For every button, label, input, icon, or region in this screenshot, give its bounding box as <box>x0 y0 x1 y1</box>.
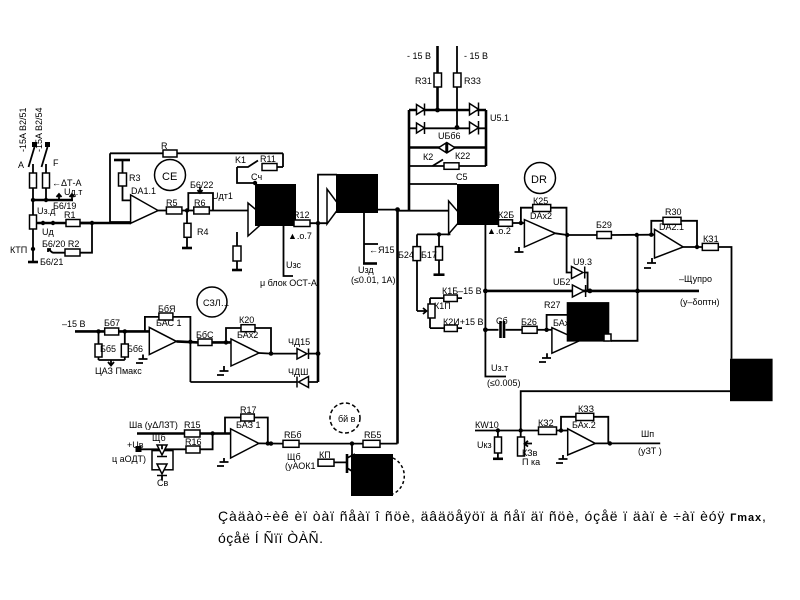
svg-text:DA2.1: DA2.1 <box>659 222 684 232</box>
terminal input2 <box>136 446 142 452</box>
svg-text:R11: R11 <box>260 154 276 164</box>
svg-text:DA1.1: DA1.1 <box>131 186 156 196</box>
op-amp DA4.1 <box>231 429 259 458</box>
svg-text:Бб6: Бб6 <box>127 344 143 354</box>
junction <box>635 233 639 237</box>
svg-text:К25: К25 <box>533 196 548 206</box>
capacitor C6 <box>501 321 505 338</box>
svg-text:μ блок ОСТ-А: μ блок ОСТ-А <box>260 278 317 288</box>
wire <box>122 160 124 173</box>
meter circle U1 <box>197 287 227 317</box>
meter DR circle <box>525 163 556 194</box>
wire output block A <box>294 222 296 224</box>
svg-text:(≤0.005): (≤0.005) <box>487 378 520 388</box>
wire <box>37 222 93 225</box>
wire feedback E <box>547 315 567 330</box>
diode U5.1b <box>470 103 479 117</box>
junction <box>185 208 189 212</box>
diode VD5a <box>157 445 167 457</box>
svg-text:R30: R30 <box>665 207 682 217</box>
svg-text:Çàäàò÷èê èï òàï ñåàï î ñöè, äâ: Çàäàò÷èê èï òàï ñåàï î ñöè, äâäöåÿöï ä ñ… <box>218 508 767 524</box>
wire input2 <box>139 434 213 450</box>
wire feedback B <box>318 175 337 224</box>
wire R18 <box>430 297 462 299</box>
functional block C <box>457 184 499 225</box>
svg-text:БАС 1: БАС 1 <box>156 318 182 328</box>
svg-text:КW10: КW10 <box>475 420 499 430</box>
wire supply right <box>456 46 458 73</box>
svg-text:БАх.2: БАх.2 <box>572 420 596 430</box>
svg-text:К2Б: К2Б <box>498 210 514 220</box>
junction <box>51 221 55 225</box>
op-amp DA5.2 <box>568 429 596 455</box>
resistor RS2 <box>43 173 50 188</box>
terminal A2 <box>45 142 50 147</box>
resistor R12 <box>294 220 310 227</box>
wire to block F <box>718 247 731 359</box>
wire bottom left of bridge <box>408 210 410 212</box>
svg-text:БАЗ 1: БАЗ 1 <box>236 420 261 430</box>
junction <box>44 198 48 202</box>
svg-text:Бб5: Бб5 <box>100 344 116 354</box>
wire block F to bottom section <box>521 391 730 430</box>
svg-text:К2: К2 <box>423 152 433 162</box>
meter circle SP (dashed) <box>330 403 360 433</box>
svg-text:КТП: КТП <box>10 245 27 255</box>
diode VD16 <box>297 377 309 388</box>
row C5 wire <box>408 183 457 185</box>
resistor R29 <box>597 232 612 239</box>
wire output <box>555 233 597 235</box>
tap arrow <box>198 187 203 193</box>
svg-text:(у–δоптн): (у–δоптн) <box>680 297 719 307</box>
node tap arrow <box>70 194 75 200</box>
wire row E <box>485 329 522 331</box>
wire <box>45 188 47 200</box>
resistor RS3 <box>30 215 37 229</box>
svg-text:–15 В: –15 В <box>62 319 86 329</box>
svg-text:RЗ3: RЗ3 <box>464 76 481 86</box>
resistor R18 <box>444 295 458 302</box>
svg-text:R16: R16 <box>185 437 202 447</box>
resistor R67 <box>105 328 119 335</box>
wire DA2.2 feedback <box>521 208 567 235</box>
resistor R24 vertical <box>413 247 421 261</box>
wire supply left <box>436 46 439 73</box>
functional block G <box>351 454 393 496</box>
junction <box>253 181 257 185</box>
svg-text:R1: R1 <box>64 210 76 220</box>
junction <box>455 125 460 130</box>
functional block B <box>336 174 378 213</box>
ground E <box>539 353 551 362</box>
junction <box>31 247 35 251</box>
ground DA2.1 <box>644 258 656 268</box>
wire output DA3.2 <box>259 352 297 355</box>
svg-text:Бб7: Бб7 <box>104 318 120 328</box>
bridge mid wire <box>408 127 486 129</box>
wire <box>109 153 111 222</box>
transistor leads <box>347 454 355 473</box>
op-amp DA1.1 <box>131 195 159 223</box>
svg-text:A: A <box>18 160 24 170</box>
node tap arrow <box>48 249 53 253</box>
junction <box>483 327 488 332</box>
wire feedback DA4.1 <box>225 418 268 444</box>
wire feedback DA3.2 <box>226 328 271 354</box>
junction <box>350 441 354 445</box>
svg-text:Cч: Cч <box>251 172 262 182</box>
wiper R34 <box>525 441 533 447</box>
resistor R25 <box>533 205 551 212</box>
svg-text:RБ5: RБ5 <box>364 430 381 440</box>
resistor R32 <box>539 427 557 435</box>
svg-text:БбЯ: БбЯ <box>158 304 176 314</box>
resistor R14 <box>283 440 299 447</box>
svg-text:ЧДШ: ЧДШ <box>288 367 308 377</box>
svg-text:бй в: бй в <box>338 414 356 424</box>
resistor R22 <box>444 163 459 170</box>
svg-text:R: R <box>161 141 168 151</box>
diode U9.3 <box>572 267 585 279</box>
resistor RS1 <box>30 173 37 188</box>
bridge bottom wire <box>408 146 486 149</box>
resistor R7 <box>163 150 177 157</box>
resistor R23s <box>454 73 462 87</box>
svg-text:Сб: Сб <box>496 316 508 326</box>
ground DA4.1 <box>217 458 229 466</box>
junction <box>544 328 548 332</box>
wire output <box>158 210 166 212</box>
resistor R23 output <box>499 220 513 227</box>
tap R6/22 jumper <box>188 193 213 211</box>
svg-text:ЦАЗ Пмакс: ЦАЗ Пмакс <box>95 366 142 376</box>
wiper arrow down <box>99 360 125 366</box>
resistor R3 <box>119 173 127 186</box>
resistor R5 <box>166 207 182 214</box>
svg-text:Uзс: Uзс <box>286 260 302 270</box>
terminal bar <box>363 262 377 265</box>
wire <box>277 166 283 168</box>
junction <box>316 351 321 356</box>
svg-text:C5: C5 <box>456 172 468 182</box>
wire <box>32 229 34 262</box>
svg-text:óçåë Í Ñïï ÒÀÑ.: óçåë Í Ñïï ÒÀÑ. <box>218 530 324 546</box>
svg-text:К20: К20 <box>239 315 254 325</box>
svg-text:R15: R15 <box>184 420 201 430</box>
junction <box>437 232 441 236</box>
junction <box>31 198 35 202</box>
junction <box>588 289 593 294</box>
wire <box>186 211 188 249</box>
wire U9.3 branch <box>567 235 588 291</box>
svg-text:СЗЛ…: СЗЛ… <box>203 298 230 308</box>
wire <box>310 222 327 224</box>
wire input DA3.1 <box>75 330 149 333</box>
resistor R16 <box>186 446 200 453</box>
resistor R33f <box>576 413 594 420</box>
wire output block B <box>378 209 398 211</box>
junction <box>123 329 127 333</box>
svg-text:КЗ1: КЗ1 <box>703 234 719 244</box>
wiper arrow R21 <box>417 308 427 314</box>
wire <box>513 222 525 224</box>
resistor R31 <box>702 243 718 250</box>
op-amp DA3.1 <box>149 327 176 354</box>
svg-text:DAх2: DAх2 <box>530 211 552 221</box>
diode U6.2 <box>572 285 585 297</box>
wire <box>611 234 654 236</box>
motor circle arc <box>393 458 404 494</box>
wire output DA3.1 <box>176 341 198 342</box>
svg-text:Uкз: Uкз <box>477 440 492 450</box>
bridge left edge <box>408 110 411 211</box>
svg-text:Б6/22: Б6/22 <box>190 180 213 190</box>
junction <box>649 233 653 237</box>
wire <box>45 164 47 173</box>
ground Ukz <box>493 457 503 460</box>
svg-text:Шп: Шп <box>641 429 654 439</box>
svg-text:F: F <box>53 158 59 168</box>
wire <box>497 431 499 459</box>
functional block E <box>567 302 610 342</box>
resistor R10 <box>318 459 334 466</box>
ground R4 <box>182 247 192 250</box>
wire <box>80 222 131 225</box>
resistor R20f <box>241 325 255 332</box>
svg-text:K1: K1 <box>235 155 246 165</box>
resistor Ukz vertical <box>495 437 502 453</box>
junction <box>695 245 699 249</box>
wire pot bottom <box>429 318 431 328</box>
wire op-amp C lower input <box>417 233 450 235</box>
svg-text:▲.о.2: ▲.о.2 <box>487 226 511 236</box>
svg-text:Ша (уΔЛЗТ): Ша (уΔЛЗТ) <box>129 420 178 430</box>
ground DA2.2 <box>515 247 524 252</box>
svg-text:БбС: БбС <box>196 330 214 340</box>
svg-text:–Щупро: –Щупро <box>679 274 712 284</box>
main horizontal wire <box>485 290 699 293</box>
wire clamp bottom <box>190 381 318 383</box>
bridge top wire <box>409 109 486 112</box>
svg-text:RЗ1: RЗ1 <box>415 76 432 86</box>
wire feedback top <box>110 152 283 154</box>
resistor R17 vertical <box>436 247 443 261</box>
svg-text:U5.1: U5.1 <box>490 113 509 123</box>
node tap arrow <box>57 194 62 200</box>
resistor R65 <box>95 344 102 357</box>
svg-text:Uз.т: Uз.т <box>491 363 508 373</box>
op-amp A1 (behind block) <box>248 203 267 236</box>
wire <box>380 443 398 445</box>
resistor R6 <box>194 207 210 214</box>
wire <box>209 210 248 212</box>
diode VD5b <box>157 464 167 476</box>
wire pot top <box>429 298 431 304</box>
capacitor C1 plate <box>114 159 130 162</box>
op-amp E1 (behind block) <box>552 328 580 354</box>
junction <box>269 441 273 445</box>
bridge right edge <box>485 110 488 166</box>
junction <box>496 428 500 432</box>
wire <box>110 221 131 223</box>
wire <box>123 186 131 200</box>
svg-text:К22: К22 <box>455 151 470 161</box>
resistor R13 <box>363 440 380 447</box>
wire <box>299 443 363 445</box>
wire block C down <box>485 225 506 377</box>
svg-text:R3: R3 <box>129 173 141 183</box>
ground R17 <box>434 273 445 276</box>
diode VD15 <box>297 349 309 360</box>
junction <box>269 351 273 355</box>
svg-text:КЗЗ: КЗЗ <box>578 404 594 414</box>
junction <box>635 289 640 294</box>
wire feedback right drop <box>282 153 284 167</box>
resistor R11 <box>262 164 277 171</box>
svg-text:Б24: Б24 <box>398 250 414 260</box>
junction <box>519 428 523 432</box>
svg-text:R17: R17 <box>240 405 257 415</box>
svg-text:К1П: К1П <box>434 301 451 311</box>
potentiometer R21 <box>428 304 435 318</box>
junction <box>90 221 94 225</box>
diode clamp box <box>152 451 173 470</box>
meter CE circle <box>155 160 186 191</box>
svg-text:R6: R6 <box>194 198 206 208</box>
svg-text:(уАОК1: (уАОК1 <box>285 461 316 471</box>
wire to block C <box>398 210 449 212</box>
wire block E output <box>611 235 638 341</box>
ground DA3.2 <box>217 366 229 375</box>
junction <box>559 428 563 432</box>
opto diode pair U6.6 <box>439 143 456 153</box>
svg-text:(≤0.01, 1А): (≤0.01, 1А) <box>351 275 395 285</box>
wire <box>436 87 439 110</box>
diode U5.1a <box>417 104 425 116</box>
svg-text:Б6/20 R2: Б6/20 R2 <box>42 239 79 249</box>
op-amp C1 (behind block) <box>449 201 463 234</box>
wire clamp vertical <box>317 223 320 382</box>
svg-text:Uдт1: Uдт1 <box>212 191 233 201</box>
wire <box>557 430 568 432</box>
row K2 wire <box>408 165 486 167</box>
junction <box>41 221 45 225</box>
svg-text:(уЗТ ): (уЗТ ) <box>638 446 662 456</box>
op-amp DA3.2 <box>231 339 259 366</box>
svg-text:R27: R27 <box>544 300 561 310</box>
ground DA3.1 <box>136 355 148 364</box>
junction <box>224 340 228 344</box>
svg-text:К2И+15 В: К2И+15 В <box>443 317 484 327</box>
wire feedback DA5.2 <box>561 417 608 444</box>
switch SA2 <box>42 147 48 167</box>
wire below block B <box>363 213 365 264</box>
svg-text:▲.о.7: ▲.о.7 <box>288 231 312 241</box>
wire <box>237 167 257 183</box>
op-amp DA2.2 <box>524 220 555 247</box>
svg-text:Б17: Б17 <box>421 250 437 260</box>
wire output <box>595 442 660 444</box>
svg-text:CE: CE <box>162 171 177 183</box>
resistor R1 <box>66 220 80 227</box>
svg-text:- 15 В: - 15 В <box>407 51 431 61</box>
svg-text:UБ2: UБ2 <box>553 277 570 287</box>
wire long vertical feedback <box>396 210 399 444</box>
functional block F <box>730 359 773 402</box>
junction <box>266 441 270 445</box>
wire <box>32 200 34 215</box>
svg-text:КЗ2: КЗ2 <box>538 418 554 428</box>
wire bus <box>33 199 73 202</box>
wire <box>53 223 92 253</box>
wire <box>309 353 319 355</box>
svg-text:RБб: RБб <box>284 430 302 440</box>
wire clamp stub <box>161 445 163 480</box>
switch K1 <box>237 161 258 168</box>
svg-text:Б6/21: Б6/21 <box>40 257 63 267</box>
junction <box>210 431 214 435</box>
wire DA2.1 feedback <box>651 221 697 247</box>
wire R24 branch <box>416 234 418 311</box>
ground DA5.2 <box>556 455 568 463</box>
switch SA1 <box>29 147 35 167</box>
resistor R8 vertical <box>233 246 241 261</box>
svg-text:К1Б–15 В: К1Б–15 В <box>442 286 482 296</box>
svg-text:Щб: Щб <box>152 433 166 443</box>
resistor R15 <box>185 430 201 437</box>
resistor R20 <box>444 325 457 332</box>
junction <box>395 207 400 212</box>
wire output <box>683 246 702 248</box>
block E output pin <box>604 334 611 341</box>
resistor R69 <box>159 313 173 320</box>
terminal bottom bar <box>28 261 38 264</box>
svg-text:- 15 В: - 15 В <box>464 51 488 61</box>
potentiometer R34 <box>518 437 525 456</box>
resistor R4 <box>184 223 191 237</box>
tap to Ya15 <box>364 243 378 245</box>
svg-text:Uд: Uд <box>42 227 54 237</box>
wire <box>32 188 34 200</box>
wire base <box>334 444 352 463</box>
svg-text:DR: DR <box>531 174 547 186</box>
resistor R30 <box>663 217 681 224</box>
resistor R19 <box>198 339 212 346</box>
diode U5.2a <box>417 122 425 134</box>
svg-text:R5: R5 <box>166 198 178 208</box>
wire input bottom <box>475 430 539 432</box>
svg-text:-15A B2/51: -15A B2/51 <box>18 107 28 152</box>
svg-text:←Я15: ←Я15 <box>369 245 395 255</box>
resistor R26 <box>522 326 537 333</box>
junction <box>608 441 612 445</box>
junction <box>188 340 192 344</box>
terminal A1 <box>32 142 37 147</box>
junction <box>316 221 320 225</box>
switch K2 <box>433 160 444 167</box>
resistor R17f <box>241 414 255 421</box>
wire below block A <box>284 226 294 276</box>
op-amp DA2.1 <box>655 229 684 258</box>
wire <box>182 210 194 212</box>
resistor R2 <box>65 249 80 256</box>
svg-text:ЧД15: ЧД15 <box>288 337 310 347</box>
svg-text:R12: R12 <box>293 210 310 220</box>
wire <box>236 232 238 270</box>
resistor R21s <box>434 73 442 87</box>
svg-text:П ка: П ка <box>522 457 540 467</box>
